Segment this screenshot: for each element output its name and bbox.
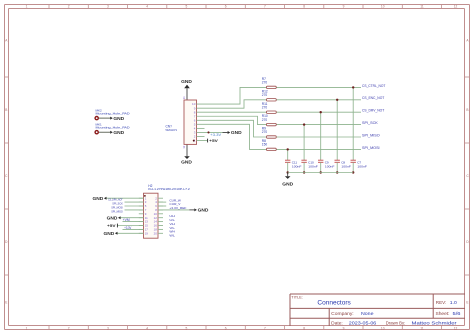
svg-text:TITLE:: TITLE: [291,296,303,300]
svg-text:KH-1.27PH180-2X10P-L7.2: KH-1.27PH180-2X10P-L7.2 [148,187,190,191]
svg-text:+3.3V: +3.3V [124,226,132,230]
svg-text:REV:: REV: [436,300,447,305]
svg-text:CS_DRV_NOT: CS_DRV_NOT [362,109,384,113]
svg-text:1: 1 [26,327,28,331]
svg-text:SPI_MISO: SPI_MISO [111,209,123,213]
svg-text:CS_ENC_NOT: CS_ENC_NOT [362,96,384,100]
svg-text:+3.3V_REF: +3.3V_REF [169,206,186,210]
svg-text:+5V: +5V [107,223,116,228]
svg-text:100nF: 100nF [308,164,318,168]
svg-text:11: 11 [420,327,424,331]
svg-text:GND: GND [282,181,294,186]
svg-text:7: 7 [264,5,266,9]
svg-text:3: 3 [107,327,109,331]
svg-text:270: 270 [262,105,268,109]
svg-text:100nF: 100nF [325,164,335,168]
svg-text:4: 4 [146,327,148,331]
svg-text:2: 2 [68,327,70,331]
svg-text:1.0: 1.0 [450,300,457,305]
svg-text:12: 12 [182,145,186,149]
svg-text:270: 270 [262,93,268,97]
svg-text:None: None [361,311,374,316]
svg-text:9: 9 [343,5,345,9]
svg-text:Matteo Schmider: Matteo Schmider [412,320,458,325]
svg-text:GND: GND [113,130,125,135]
svg-text:GND: GND [181,160,193,165]
svg-text:270: 270 [262,130,268,134]
svg-text:GND: GND [104,231,116,236]
svg-text:150: 150 [262,143,268,147]
svg-text:Drawn By:: Drawn By: [386,320,406,325]
svg-text:Company:: Company: [331,311,354,316]
svg-text:4: 4 [146,5,148,9]
svg-text:8: 8 [303,327,305,331]
svg-text:GND: GND [181,79,193,84]
svg-text:12: 12 [454,327,458,331]
svg-text:CS_CTRL_NOT: CS_CTRL_NOT [362,84,385,88]
svg-text:GND: GND [107,215,119,220]
svg-text:10: 10 [381,327,385,331]
svg-text:3: 3 [107,5,109,9]
svg-text:2023-05-06: 2023-05-06 [349,320,377,325]
svg-text:270: 270 [262,81,268,85]
svg-text:Mounting_Hole_PAD: Mounting_Hole_PAD [96,111,131,115]
svg-text:Mounting_Hole_PAD: Mounting_Hole_PAD [96,126,131,130]
svg-text:270: 270 [262,118,268,122]
svg-text:SPI_MISO: SPI_MISO [362,133,380,137]
svg-text:Connectors: Connectors [317,300,350,307]
svg-text:SPI_SCK: SPI_SCK [362,121,379,125]
svg-text:6: 6 [225,327,227,331]
svg-text:10: 10 [381,5,385,9]
svg-text:WL: WL [169,234,175,238]
svg-text:1: 1 [26,5,28,9]
svg-text:11: 11 [420,5,424,9]
svg-text:2: 2 [68,5,70,9]
svg-text:6: 6 [225,5,227,9]
svg-text:532611071: 532611071 [166,128,178,132]
svg-text:12: 12 [454,5,458,9]
svg-text:100nF: 100nF [357,164,367,168]
svg-text:GND: GND [198,208,210,213]
svg-text:GND: GND [93,196,105,201]
svg-text:B: B [466,108,468,112]
svg-text:100nF: 100nF [292,164,302,168]
svg-text:E: E [466,301,468,305]
svg-text:100nF: 100nF [341,164,351,168]
svg-text:19: 19 [145,231,149,235]
svg-text:Date:: Date: [331,320,343,325]
svg-text:+3.3V: +3.3V [210,133,222,137]
svg-text:E: E [5,301,7,305]
svg-text:5: 5 [186,5,188,9]
svg-text:Sheet:: Sheet: [436,311,450,316]
svg-text:11: 11 [182,96,186,99]
svg-text:B: B [5,108,7,112]
svg-text:+5V: +5V [209,138,218,143]
svg-text:20: 20 [154,231,158,235]
svg-text:SPI_MOSI: SPI_MOSI [362,146,380,150]
svg-text:5/6: 5/6 [453,311,462,316]
svg-text:8: 8 [303,5,305,9]
svg-text:9: 9 [343,327,345,331]
svg-text:5: 5 [186,327,188,331]
svg-text:7: 7 [264,327,266,331]
svg-text:GND: GND [113,116,125,121]
svg-text:GND: GND [231,130,243,135]
svg-text:+VM: +VM [123,218,130,222]
